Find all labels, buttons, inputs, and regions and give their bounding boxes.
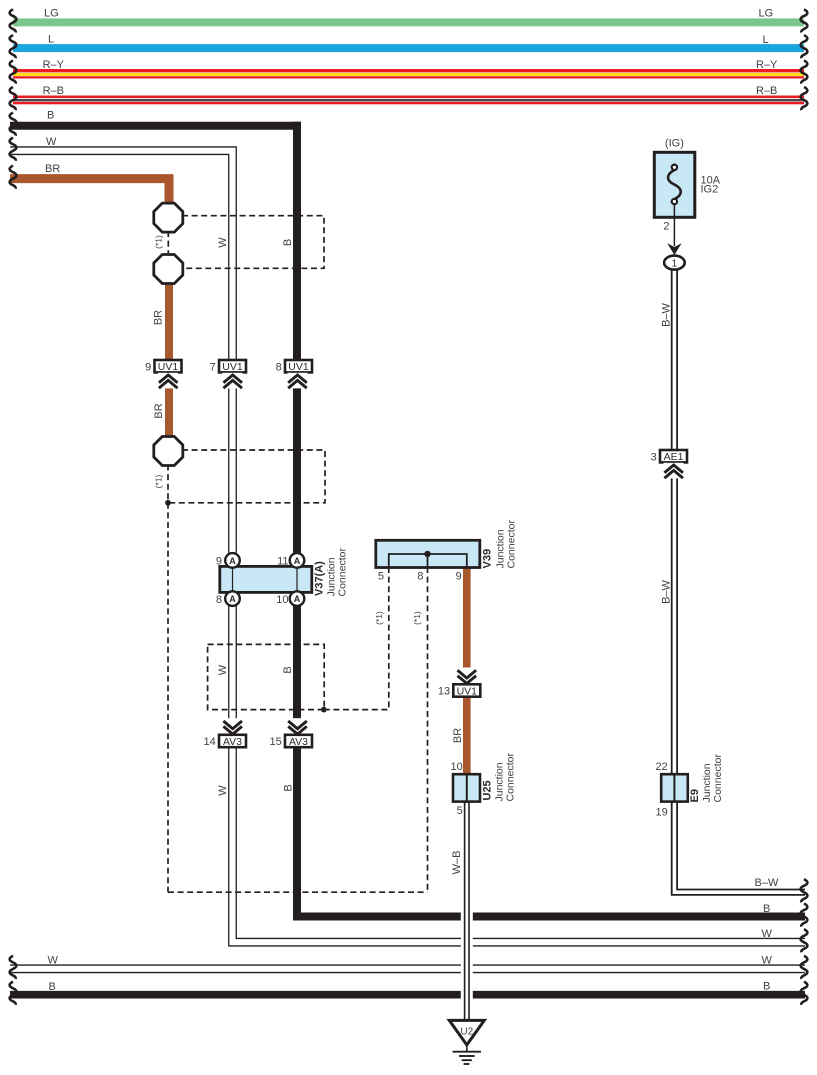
svg-text:BR: BR <box>452 728 464 743</box>
connector 7 UV1 <box>210 360 246 373</box>
svg-text:B: B <box>282 666 294 673</box>
junction connector U25 <box>451 761 480 817</box>
svg-text:5: 5 <box>457 805 463 817</box>
connector 14 AV3 <box>204 735 246 748</box>
node 1 ellipse <box>664 256 685 270</box>
connector 15 AV3 <box>270 735 312 748</box>
svg-text:5: 5 <box>378 570 384 582</box>
svg-text:W: W <box>762 955 773 967</box>
svg-text:B: B <box>763 981 770 993</box>
svg-text:AV3: AV3 <box>223 736 242 748</box>
svg-text:2: 2 <box>663 221 669 233</box>
svg-text:IG2: IG2 <box>701 184 719 196</box>
svg-text:UV1: UV1 <box>158 361 179 373</box>
junction connector V37(A) <box>216 553 312 606</box>
svg-text:W: W <box>762 928 773 940</box>
svg-text:Connector: Connector <box>505 753 517 802</box>
wire W (top bus, down at x=232.5, right to edge at y=942.2) <box>10 136 805 942</box>
junction connector E9 <box>656 761 688 819</box>
svg-text:A: A <box>294 594 301 604</box>
wire fuse to arrow (thin) <box>673 204 675 246</box>
dashed octagon1-octagon2 (*1) link <box>167 231 169 256</box>
svg-text:Connector: Connector <box>337 548 349 597</box>
svg-text:B: B <box>282 239 294 246</box>
bus B bottom (full width) <box>10 981 805 995</box>
svg-text:BR: BR <box>45 163 60 175</box>
chevron up 8 UV1 <box>288 373 308 389</box>
bus L <box>13 33 804 52</box>
chevron down 14 AV3 <box>223 718 243 734</box>
svg-text:9: 9 <box>456 570 462 582</box>
svg-text:W: W <box>217 664 229 675</box>
connector 13 UV1 <box>438 684 480 697</box>
dashed net group <box>168 216 428 893</box>
svg-text:W–B: W–B <box>451 851 463 875</box>
bus LG <box>13 8 804 27</box>
svg-text:L: L <box>763 34 769 46</box>
svg-text:LG: LG <box>44 8 59 20</box>
arrow down (fuse output) <box>667 243 681 255</box>
svg-text:(IG): (IG) <box>665 137 684 149</box>
fuse 10A IG2 <box>654 137 720 232</box>
svg-text:9: 9 <box>145 361 151 373</box>
svg-text:W: W <box>217 785 229 796</box>
svg-text:8: 8 <box>216 594 222 606</box>
bus R-Y <box>13 59 804 79</box>
svg-text:B: B <box>282 784 294 791</box>
svg-text:V39: V39 <box>482 549 494 569</box>
octagon splice 3 <box>154 437 183 466</box>
dashed octagon3 bottom to junction (*1) <box>167 465 169 503</box>
svg-text:(*1): (*1) <box>412 611 422 625</box>
dashed horizontal y=892.2 <box>168 891 428 893</box>
wire BR (top bus, down at x=169 to octagon) <box>10 163 169 205</box>
svg-text:19: 19 <box>656 807 668 819</box>
bus W bottom (full width) <box>10 954 805 968</box>
chevron up 7 UV1 <box>223 373 243 389</box>
chevron up AE1 <box>664 463 684 479</box>
rotated wire labels <box>153 235 673 874</box>
svg-text:1: 1 <box>672 259 678 270</box>
svg-text:U25: U25 <box>482 780 494 800</box>
svg-text:13: 13 <box>438 686 450 698</box>
svg-text:14: 14 <box>204 736 216 748</box>
svg-text:R–Y: R–Y <box>43 59 65 71</box>
svg-text:L: L <box>48 33 54 45</box>
svg-text:AE1: AE1 <box>664 451 684 463</box>
svg-text:AV3: AV3 <box>289 736 308 748</box>
junction dot dashed box corner <box>321 707 327 713</box>
dashed loop octagon3 right, down to junction <box>168 450 325 503</box>
svg-text:R–Y: R–Y <box>756 59 778 71</box>
dashed harness box <box>208 644 325 709</box>
svg-text:7: 7 <box>210 361 216 373</box>
chevron up 9 UV1 <box>158 373 178 389</box>
svg-text:W: W <box>48 954 59 966</box>
chevron down 15 AV3 <box>288 718 308 734</box>
squiggle break marks left <box>10 9 17 32</box>
svg-text:B: B <box>763 903 770 915</box>
svg-text:W: W <box>46 136 57 148</box>
junction connector V39 <box>376 540 480 582</box>
svg-text:BR: BR <box>153 310 165 325</box>
svg-text:E9: E9 <box>689 789 701 802</box>
svg-text:8: 8 <box>417 570 423 582</box>
svg-text:10: 10 <box>276 594 288 606</box>
svg-text:R–B: R–B <box>756 85 777 97</box>
svg-text:A: A <box>229 556 236 566</box>
svg-text:W: W <box>217 237 229 248</box>
wire B (top bus, down at x=297, bottom right to edge) <box>10 110 805 921</box>
connector 8 UV1 <box>276 360 312 373</box>
svg-text:22: 22 <box>656 761 668 773</box>
svg-text:LG: LG <box>759 8 774 20</box>
chevron down 13 UV1 <box>457 668 477 684</box>
dashed long vertical x=168 <box>167 503 169 892</box>
connector 3 AE1 <box>651 450 687 463</box>
svg-text:BR: BR <box>153 403 165 418</box>
svg-text:UV1: UV1 <box>222 361 243 373</box>
wire W-B (U25 to ground, over buses) <box>461 802 473 1021</box>
octagon splice 2 <box>154 255 183 284</box>
svg-text:10: 10 <box>451 761 463 773</box>
svg-text:V37(A): V37(A) <box>314 561 326 596</box>
svg-text:3: 3 <box>651 451 657 463</box>
junction dot x=168 <box>165 500 171 506</box>
wire BR V39 pin9 to U25 pin10 <box>463 567 471 775</box>
dashed V39 pin8 vertical <box>427 567 429 892</box>
svg-text:Connector: Connector <box>506 520 518 569</box>
svg-text:(*1): (*1) <box>374 611 384 625</box>
svg-text:A: A <box>294 556 301 566</box>
svg-text:9: 9 <box>216 556 222 568</box>
svg-text:UV1: UV1 <box>457 686 478 698</box>
svg-text:B–W: B–W <box>755 877 779 889</box>
svg-text:U2: U2 <box>460 1027 473 1038</box>
dashed V39 pin5 vertical <box>388 567 390 710</box>
dashed horizontal y=709.6 join <box>324 709 389 711</box>
svg-text:A: A <box>229 594 236 604</box>
svg-text:B: B <box>49 981 56 993</box>
svg-text:B: B <box>47 110 54 122</box>
ground U2 <box>449 1020 484 1064</box>
svg-text:11: 11 <box>277 556 288 568</box>
svg-text:(*1): (*1) <box>154 474 164 488</box>
dashed loop octagon1 right, down, octagon2 <box>182 216 324 269</box>
connector 9 UV1 <box>145 360 181 373</box>
rotated component name labels <box>314 520 725 803</box>
svg-text:8: 8 <box>276 361 282 373</box>
bus R-B <box>13 85 804 105</box>
octagon splice 1 <box>154 203 183 232</box>
svg-text:(*1): (*1) <box>154 235 164 249</box>
svg-text:Connector: Connector <box>712 754 724 803</box>
svg-text:B–W: B–W <box>660 579 672 603</box>
squiggle break marks right <box>801 9 808 1004</box>
svg-text:UV1: UV1 <box>288 361 309 373</box>
svg-text:B–W: B–W <box>660 302 672 326</box>
svg-text:R–B: R–B <box>43 85 64 97</box>
wire BR octagon2 to octagon3 through UV1 <box>165 282 173 438</box>
wire B-W (from ellipse down x=674.4, right at y=892.2 to edge) <box>674 268 805 892</box>
svg-text:15: 15 <box>270 736 282 748</box>
